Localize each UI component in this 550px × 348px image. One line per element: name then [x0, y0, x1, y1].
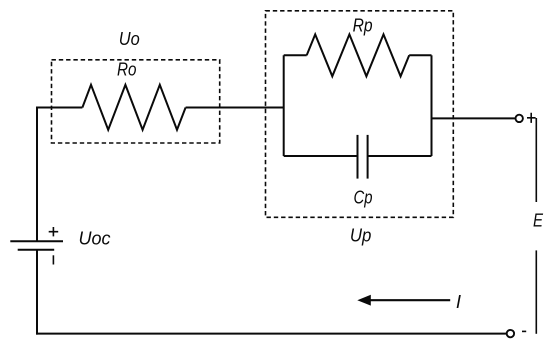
- svg-text:Cp: Cp: [354, 187, 373, 208]
- terminal circle minus: [507, 330, 514, 337]
- label Rp: [353, 15, 373, 36]
- label E: [533, 210, 544, 231]
- wire left vertical (source top lead): [36, 108, 38, 242]
- plus sign at output terminal: [527, 113, 536, 123]
- bracket line E upper: [535, 118, 537, 202]
- label Uoc: [79, 227, 112, 248]
- svg-text:Rp: Rp: [353, 15, 373, 36]
- label Ro: [117, 59, 137, 80]
- wire top horizontal lead into Ro: [36, 107, 82, 109]
- resistor Rp: [284, 34, 432, 76]
- label I: [456, 291, 461, 312]
- wire left vertical (source bottom lead): [36, 250, 38, 335]
- resistor Ro: [82, 85, 185, 130]
- dashed enclosure box for Ro: [52, 60, 220, 143]
- wire Ro to Up block: [186, 107, 284, 109]
- node right bus of RC block: [431, 55, 433, 156]
- battery Uoc bottom plate: [18, 249, 55, 251]
- wire bottom horizontal: [36, 333, 507, 335]
- label Uo: [119, 28, 140, 49]
- svg-text:Up: Up: [350, 225, 372, 246]
- current arrow I: [357, 295, 450, 306]
- label Cp: [354, 187, 373, 208]
- svg-text:Ro: Ro: [117, 59, 137, 80]
- bracket line E lower: [535, 250, 537, 333]
- minus sign at bottom terminal: [522, 330, 526, 332]
- label Up: [350, 225, 372, 246]
- svg-text:E: E: [533, 210, 544, 231]
- capacitor Cp: [284, 135, 432, 179]
- wire output to plus terminal: [432, 117, 516, 119]
- node left bus of RC block: [283, 55, 285, 156]
- plus sign at battery: [49, 227, 59, 236]
- minus tick at battery: [52, 255, 54, 264]
- svg-text:Uoc: Uoc: [79, 227, 112, 248]
- svg-text:Uo: Uo: [119, 28, 140, 49]
- battery Uoc top plate: [10, 240, 63, 242]
- dashed enclosure box for Up: [266, 11, 454, 218]
- terminal circle plus: [516, 115, 523, 122]
- svg-text:I: I: [456, 291, 461, 312]
